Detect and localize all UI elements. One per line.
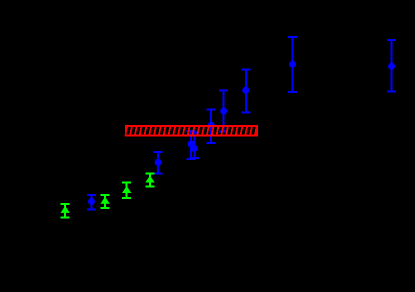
green errorbar G4 <box>146 174 155 187</box>
green errorbar G1 <box>61 204 70 218</box>
blue marker B5 <box>220 108 227 115</box>
green marker G2 <box>100 197 109 204</box>
blue errorbar B1 <box>87 195 96 210</box>
blue errorbar B8 <box>387 40 396 92</box>
blue marker B3a <box>188 141 195 148</box>
blue marker B2 <box>155 159 162 166</box>
blue errorbar B7 <box>288 37 297 92</box>
green marker G1 <box>61 206 70 213</box>
blue errorbar B3a <box>187 131 196 159</box>
green errorbar G2 <box>101 195 110 208</box>
red hatched band <box>125 125 257 136</box>
blue errorbar B3b <box>190 133 199 159</box>
blue errorbar B2 <box>154 152 163 173</box>
blue marker B4 <box>208 122 215 129</box>
blue errorbar B4 <box>207 109 216 143</box>
green marker G4 <box>145 176 154 183</box>
red band border <box>126 126 257 136</box>
green errorbar G3 <box>122 183 131 198</box>
blue marker B1 <box>88 198 95 205</box>
blue marker B8 <box>388 63 395 70</box>
blue marker B3b <box>191 145 198 152</box>
blue marker B6 <box>242 87 249 94</box>
blue errorbar B5 <box>219 90 228 131</box>
blue errorbar B6 <box>241 69 250 112</box>
green marker G3 <box>122 186 131 193</box>
blue marker B7 <box>289 61 296 68</box>
